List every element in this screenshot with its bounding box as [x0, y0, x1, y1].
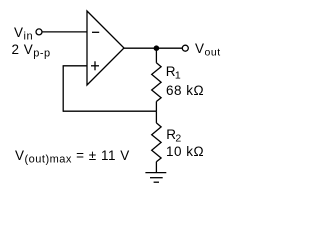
- svg-text:Vout: Vout: [195, 41, 221, 59]
- op-amp non-inverting input marker: [91, 61, 99, 70]
- node output junction: [154, 45, 160, 51]
- output terminal (Vout): [182, 45, 188, 51]
- svg-text:10 kΩ: 10 kΩ: [166, 144, 204, 159]
- svg-text:Vin: Vin: [14, 25, 33, 43]
- svg-text:2 Vp-p: 2 Vp-p: [12, 42, 51, 60]
- input terminal (Vin): [36, 29, 42, 35]
- svg-text:V(out)max = ± 11 V: V(out)max = ± 11 V: [15, 148, 130, 166]
- svg-text:R2: R2: [166, 127, 181, 145]
- wire R2 to ground: [155, 162, 157, 173]
- wire feedback horizontal: [63, 110, 156, 112]
- wire feedback vertical: [62, 66, 64, 112]
- svg-text:R1: R1: [166, 64, 181, 82]
- resistor R2: [152, 123, 161, 162]
- wire op-amp output to Vout terminal: [124, 47, 182, 49]
- wire Vin to inverting input: [42, 31, 86, 33]
- wire junction to R2: [155, 111, 157, 123]
- svg-text:68 kΩ: 68 kΩ: [166, 83, 204, 98]
- op-amp inverting input marker: [92, 31, 99, 33]
- wire R1 to junction: [155, 102, 157, 112]
- op-amp U1: [87, 11, 124, 85]
- ground: [145, 173, 166, 183]
- wire feedback to non-inverting input: [63, 65, 87, 67]
- resistor R1: [152, 63, 161, 102]
- wire node to R1: [155, 48, 157, 63]
